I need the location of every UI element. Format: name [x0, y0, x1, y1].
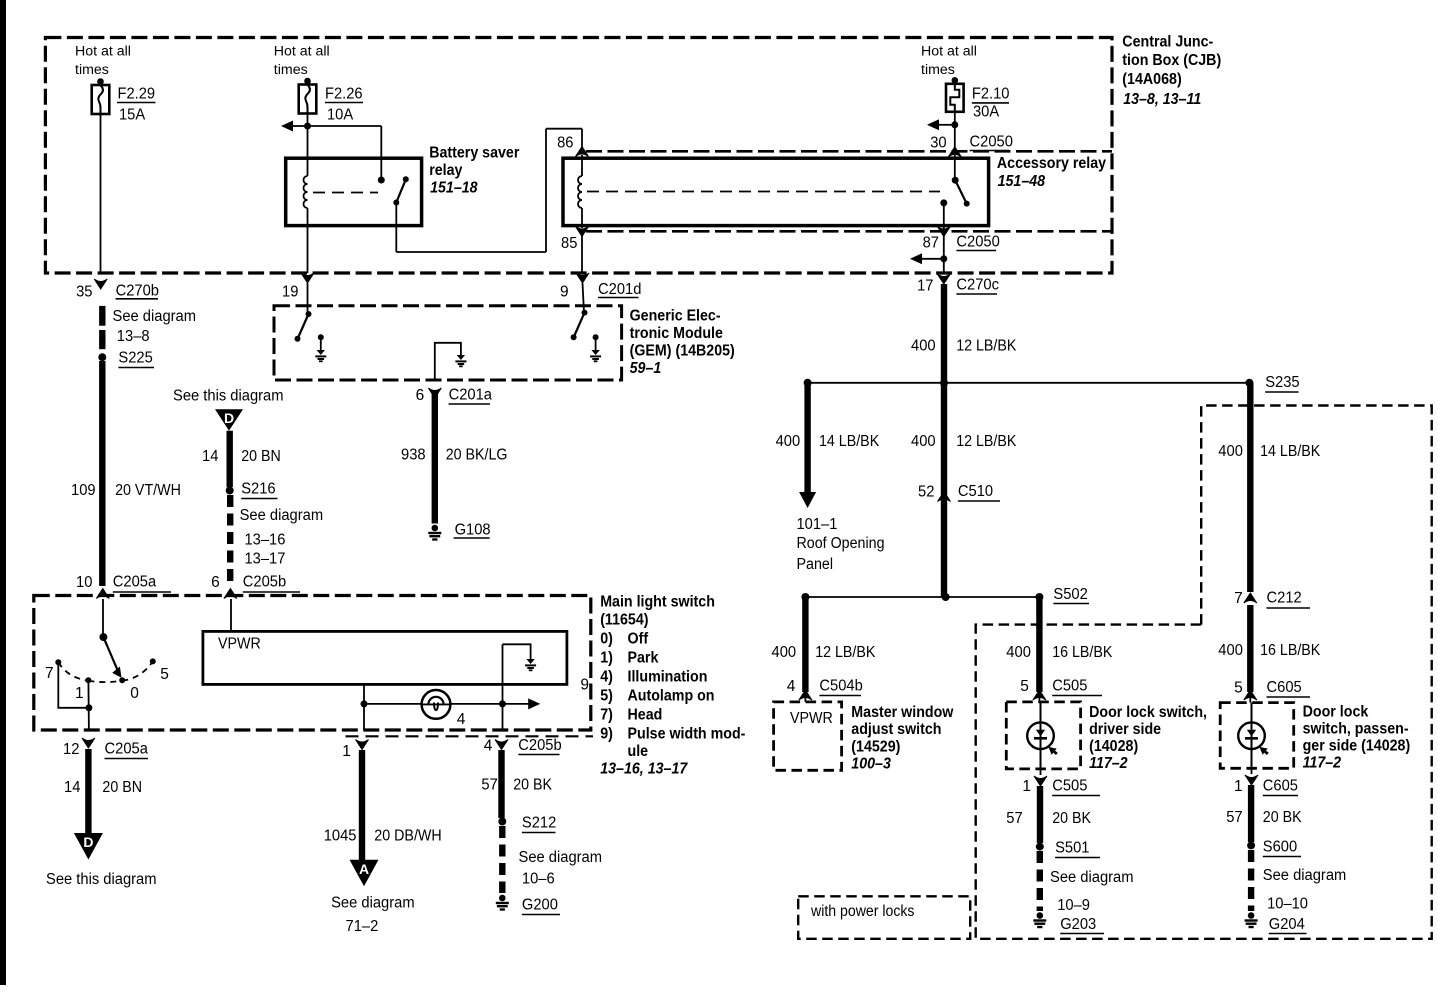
- svg-text:17: 17: [917, 278, 933, 295]
- svg-text:adjust switch: adjust switch: [851, 721, 941, 738]
- svg-text:S225: S225: [118, 350, 152, 367]
- svg-text:30: 30: [930, 135, 947, 152]
- svg-text:tion Box (CJB): tion Box (CJB): [1122, 52, 1221, 69]
- svg-text:20 DB/WH: 20 DB/WH: [374, 828, 441, 845]
- svg-text:S235: S235: [1265, 374, 1299, 391]
- svg-text:(14A068): (14A068): [1122, 71, 1181, 88]
- svg-text:C2050: C2050: [956, 234, 1000, 251]
- svg-text:9: 9: [560, 284, 569, 301]
- svg-text:C505: C505: [1052, 678, 1087, 695]
- svg-text:See diagram: See diagram: [240, 507, 324, 524]
- svg-text:1045: 1045: [324, 828, 357, 845]
- svg-text:57: 57: [1226, 809, 1242, 826]
- svg-text:400: 400: [1218, 443, 1243, 460]
- svg-text:See diagram: See diagram: [1263, 867, 1347, 884]
- svg-text:C2050: C2050: [970, 134, 1014, 151]
- svg-text:C605: C605: [1263, 778, 1298, 795]
- svg-text:C504b: C504b: [819, 678, 862, 695]
- svg-text:C212: C212: [1267, 590, 1302, 607]
- svg-text:12 LB/BK: 12 LB/BK: [956, 433, 1017, 450]
- svg-text:13–17: 13–17: [245, 551, 286, 568]
- svg-text:117–2: 117–2: [1303, 755, 1342, 772]
- svg-text:tronic Module: tronic Module: [630, 325, 723, 342]
- svg-text:Hot at all: Hot at all: [274, 44, 330, 59]
- svg-text:relay: relay: [429, 162, 462, 179]
- svg-text:100–3: 100–3: [851, 756, 891, 773]
- svg-text:S600: S600: [1263, 839, 1298, 856]
- svg-text:10–9: 10–9: [1057, 897, 1090, 914]
- svg-text:151–48: 151–48: [998, 173, 1046, 190]
- svg-text:Generic Elec-: Generic Elec-: [630, 307, 721, 324]
- svg-text:20 BN: 20 BN: [102, 779, 142, 796]
- svg-text:5: 5: [1020, 678, 1029, 695]
- svg-text:C505: C505: [1052, 778, 1087, 795]
- svg-text:16 LB/BK: 16 LB/BK: [1260, 642, 1321, 659]
- svg-text:151–18: 151–18: [430, 180, 478, 197]
- svg-text:4): 4): [600, 669, 613, 686]
- svg-text:C270b: C270b: [116, 282, 159, 299]
- svg-text:35: 35: [76, 284, 92, 301]
- svg-text:A: A: [359, 861, 369, 877]
- svg-text:9): 9): [600, 726, 613, 743]
- svg-text:Roof Opening: Roof Opening: [797, 535, 885, 552]
- svg-text:400: 400: [1006, 644, 1031, 661]
- svg-text:C205b: C205b: [243, 574, 286, 591]
- svg-text:4: 4: [484, 738, 493, 755]
- svg-text:with power locks: with power locks: [810, 903, 915, 920]
- svg-text:57: 57: [1006, 810, 1022, 827]
- svg-text:7: 7: [1234, 590, 1243, 607]
- svg-text:(14028): (14028): [1089, 738, 1138, 755]
- svg-text:S212: S212: [522, 815, 556, 832]
- svg-text:Off: Off: [628, 631, 649, 648]
- svg-text:(11654): (11654): [600, 611, 648, 628]
- svg-text:D: D: [224, 410, 234, 426]
- svg-text:1): 1): [600, 650, 613, 667]
- svg-text:938: 938: [401, 447, 426, 464]
- svg-text:13–8: 13–8: [117, 328, 150, 345]
- svg-text:S216: S216: [241, 481, 275, 498]
- svg-text:400: 400: [911, 433, 936, 450]
- svg-text:G200: G200: [522, 897, 558, 914]
- svg-text:5: 5: [1234, 680, 1243, 697]
- svg-text:times: times: [75, 62, 109, 77]
- svg-text:G108: G108: [455, 522, 491, 539]
- svg-text:14 LB/BK: 14 LB/BK: [1260, 443, 1321, 460]
- svg-text:19: 19: [282, 284, 298, 301]
- svg-text:Hot at all: Hot at all: [75, 44, 131, 59]
- svg-text:0): 0): [600, 631, 613, 648]
- svg-text:Autolamp on: Autolamp on: [628, 688, 715, 705]
- svg-text:Panel: Panel: [797, 556, 834, 573]
- svg-text:See diagram: See diagram: [331, 895, 415, 912]
- svg-text:16 LB/BK: 16 LB/BK: [1052, 644, 1113, 661]
- svg-text:6: 6: [211, 574, 220, 591]
- svg-text:12 LB/BK: 12 LB/BK: [815, 644, 876, 661]
- svg-text:14: 14: [64, 779, 81, 796]
- svg-text:C270c: C270c: [956, 277, 999, 294]
- svg-text:7): 7): [600, 707, 613, 724]
- svg-text:Pulse width mod-: Pulse width mod-: [628, 726, 746, 743]
- svg-text:C201a: C201a: [449, 387, 493, 404]
- svg-text:9: 9: [580, 677, 589, 694]
- svg-text:Main light switch: Main light switch: [600, 594, 715, 611]
- svg-text:(14529): (14529): [851, 739, 900, 756]
- svg-text:F2.10: F2.10: [972, 86, 1010, 103]
- svg-text:85: 85: [561, 235, 577, 252]
- svg-text:See diagram: See diagram: [113, 308, 197, 325]
- svg-text:20 VT/WH: 20 VT/WH: [115, 482, 181, 499]
- svg-text:109: 109: [71, 482, 96, 499]
- svg-text:F2.29: F2.29: [118, 86, 156, 103]
- svg-text:13–16, 13–17: 13–16, 13–17: [600, 760, 688, 777]
- svg-text:1: 1: [1022, 778, 1031, 795]
- svg-text:Accessory relay: Accessory relay: [997, 155, 1106, 172]
- svg-text:57: 57: [481, 777, 497, 794]
- svg-text:52: 52: [918, 484, 934, 501]
- svg-text:times: times: [274, 62, 308, 77]
- svg-text:20 BK: 20 BK: [1052, 810, 1091, 827]
- svg-text:20 BK/LG: 20 BK/LG: [446, 447, 508, 464]
- svg-text:times: times: [921, 62, 955, 77]
- svg-text:400: 400: [776, 433, 801, 450]
- svg-text:59–1: 59–1: [630, 360, 662, 377]
- svg-text:C510: C510: [958, 483, 994, 500]
- svg-text:See this diagram: See this diagram: [173, 388, 284, 405]
- svg-text:Hot at all: Hot at all: [921, 44, 977, 59]
- svg-text:1: 1: [1234, 778, 1243, 795]
- svg-text:(GEM) (14B205): (GEM) (14B205): [630, 343, 735, 360]
- svg-text:117–2: 117–2: [1089, 755, 1128, 772]
- svg-text:14: 14: [202, 448, 219, 465]
- svg-text:400: 400: [1218, 642, 1243, 659]
- svg-text:20 BK: 20 BK: [513, 777, 552, 794]
- svg-text:10A: 10A: [327, 107, 354, 124]
- svg-text:1: 1: [75, 685, 84, 702]
- svg-text:See diagram: See diagram: [1050, 869, 1134, 886]
- svg-text:20 BN: 20 BN: [241, 448, 281, 465]
- svg-text:C205a: C205a: [113, 574, 157, 591]
- svg-text:12: 12: [63, 741, 79, 758]
- svg-text:0: 0: [130, 685, 139, 702]
- svg-text:Door lock: Door lock: [1303, 704, 1369, 721]
- svg-text:VPWR: VPWR: [790, 710, 833, 727]
- svg-text:S502: S502: [1053, 586, 1087, 603]
- svg-text:C205b: C205b: [518, 737, 561, 754]
- svg-text:ger side (14028): ger side (14028): [1303, 738, 1411, 755]
- svg-text:F2.26: F2.26: [325, 86, 363, 103]
- svg-text:6: 6: [416, 387, 425, 404]
- svg-text:D: D: [83, 834, 93, 850]
- svg-text:10: 10: [76, 574, 93, 591]
- svg-text:Illumination: Illumination: [628, 669, 708, 686]
- svg-text:driver side: driver side: [1089, 721, 1161, 738]
- svg-text:400: 400: [911, 338, 936, 355]
- svg-text:G204: G204: [1269, 916, 1305, 933]
- svg-text:10–6: 10–6: [522, 871, 555, 888]
- svg-text:Master window: Master window: [851, 704, 954, 721]
- svg-text:13–16: 13–16: [245, 532, 286, 549]
- svg-text:See diagram: See diagram: [519, 849, 603, 866]
- svg-text:G203: G203: [1060, 916, 1096, 933]
- svg-text:12 LB/BK: 12 LB/BK: [956, 338, 1017, 355]
- svg-text:20 BK: 20 BK: [1263, 809, 1302, 826]
- svg-text:400: 400: [772, 644, 797, 661]
- svg-text:4: 4: [787, 678, 796, 695]
- svg-text:1: 1: [342, 743, 351, 760]
- svg-text:10–10: 10–10: [1267, 896, 1308, 913]
- svg-text:switch, passen-: switch, passen-: [1303, 721, 1409, 738]
- svg-text:C605: C605: [1267, 679, 1302, 696]
- svg-text:14 LB/BK: 14 LB/BK: [819, 433, 880, 450]
- svg-text:VPWR: VPWR: [218, 636, 261, 653]
- svg-text:13–8, 13–11: 13–8, 13–11: [1123, 91, 1201, 108]
- svg-text:5): 5): [600, 688, 613, 705]
- svg-text:86: 86: [557, 135, 573, 152]
- svg-text:C201d: C201d: [598, 281, 641, 298]
- svg-text:Battery saver: Battery saver: [429, 145, 519, 162]
- svg-text:71–2: 71–2: [346, 918, 379, 935]
- svg-text:See this diagram: See this diagram: [46, 871, 157, 888]
- svg-text:4: 4: [457, 711, 466, 728]
- svg-text:ule: ule: [628, 743, 649, 760]
- svg-text:S501: S501: [1055, 840, 1089, 857]
- svg-text:30A: 30A: [973, 104, 1000, 121]
- svg-text:Door lock switch,: Door lock switch,: [1089, 704, 1207, 721]
- svg-text:Head: Head: [628, 707, 663, 724]
- svg-text:5: 5: [160, 666, 169, 683]
- svg-text:15A: 15A: [119, 107, 146, 124]
- svg-text:101–1: 101–1: [797, 516, 838, 533]
- svg-text:7: 7: [45, 665, 54, 682]
- svg-text:Park: Park: [628, 650, 659, 667]
- svg-text:C205a: C205a: [105, 741, 149, 758]
- svg-text:87: 87: [923, 235, 939, 252]
- svg-text:Central Junc-: Central Junc-: [1122, 34, 1213, 51]
